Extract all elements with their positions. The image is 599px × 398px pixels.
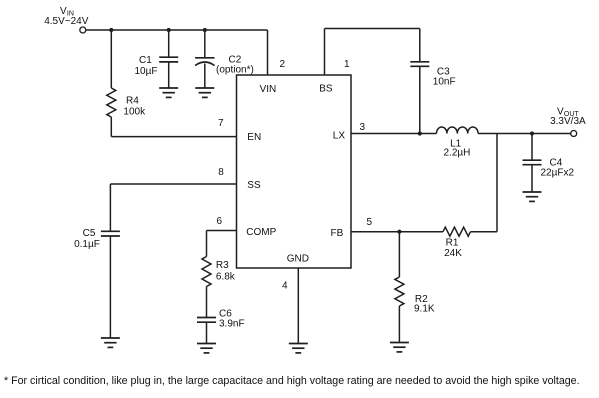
svg-text:0.1µF: 0.1µF [74,239,100,250]
svg-text:4: 4 [282,281,288,292]
svg-text:C1: C1 [139,55,152,66]
svg-text:3.9nF: 3.9nF [219,319,245,330]
svg-text:100k: 100k [123,106,146,117]
svg-text:SS: SS [247,180,261,191]
svg-text:2.2µH: 2.2µH [444,148,471,159]
svg-text:LX: LX [333,131,346,142]
svg-text:R4: R4 [126,96,139,107]
svg-text:BS: BS [319,84,333,95]
svg-text:VIN: VIN [260,84,277,95]
svg-text:COMP: COMP [246,227,276,238]
svg-text:7: 7 [218,118,224,129]
svg-text:10nF: 10nF [433,76,456,87]
svg-text:3.3V/3A: 3.3V/3A [550,116,586,127]
svg-text:1: 1 [344,59,350,70]
svg-text:22µFx2: 22µFx2 [541,168,575,179]
svg-text:6: 6 [217,216,223,227]
svg-text:* For cirtical condition, like: * For cirtical condition, like plug in, … [4,375,580,387]
svg-text:R1: R1 [446,238,459,249]
svg-text:FB: FB [331,228,344,239]
svg-text:10µF: 10µF [135,66,158,77]
svg-text:2: 2 [280,59,286,70]
svg-text:4.5V~24V: 4.5V~24V [44,16,89,27]
svg-text:EN: EN [247,132,261,143]
svg-text:9.1K: 9.1K [414,304,435,315]
svg-text:R3: R3 [216,260,229,271]
svg-text:C5: C5 [83,228,96,239]
svg-text:8: 8 [218,167,224,178]
svg-text:GND: GND [287,254,309,265]
svg-text:3: 3 [360,122,366,133]
svg-text:6.8k: 6.8k [216,272,236,283]
svg-text:(option*): (option*) [216,64,254,75]
svg-text:5: 5 [367,217,373,228]
svg-text:24K: 24K [444,248,462,259]
